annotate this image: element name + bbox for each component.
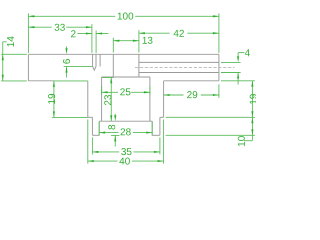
- dim 23 top arrow: [110, 77, 112, 83]
- dim 35 left extension: [91, 137, 93, 154]
- neck right wall: [149, 77, 151, 121]
- extension line hole left: [91, 24, 93, 53]
- dim 8 text: [108, 125, 115, 130]
- dim 4 upper leader vertical: [237, 53, 239, 58]
- dim 8 lower leader: [114, 135, 116, 146]
- dim 2 right arrow: [96, 32, 102, 34]
- dim 19 left bottom extension: [52, 116, 88, 118]
- pocket left wall: [98, 121, 100, 135]
- dim 6 upper leader: [66, 47, 68, 52]
- bottom edge left segment: [92, 134, 99, 136]
- dim 13 text: [143, 37, 153, 44]
- dim 28 line: [99, 132, 152, 134]
- dim 19 right top arrow: [251, 81, 253, 87]
- dim 42 left arrow: [139, 32, 145, 34]
- dim 6 text: [63, 59, 70, 64]
- dim 40 right arrow: [158, 160, 164, 162]
- part left edge: [27, 54, 29, 81]
- extension line slot left: [112, 38, 114, 53]
- dim 29 left arrow: [164, 94, 170, 96]
- dim 28 right arrow: [146, 132, 152, 134]
- dim 6 lower arrow: [65, 67, 67, 73]
- dim 10 line: [251, 117, 253, 140]
- dim 19 left bottom arrow: [53, 111, 55, 117]
- dim 35 text: [121, 148, 131, 155]
- dim 25 left arrow: [102, 91, 108, 93]
- dim 4 lower arrow: [237, 73, 239, 79]
- small hole left wall: [92, 54, 94, 66]
- dim 40 left arrow: [88, 160, 94, 162]
- dim 40 text: [119, 158, 129, 165]
- dim 40 line: [88, 160, 164, 162]
- dim 33 left arrow: [28, 26, 34, 28]
- ledge extension line right: [166, 116, 255, 118]
- left extension line for 100/33: [27, 13, 29, 53]
- dim 6 depth extension: [64, 66, 93, 68]
- dim 100 left arrow: [28, 15, 34, 17]
- dim 42 right arrow: [213, 32, 219, 34]
- dim 4 text: [245, 49, 250, 56]
- small hole right wall: [95, 54, 97, 66]
- dim 25 right arrow: [144, 91, 150, 93]
- dim 13 line: [113, 40, 139, 42]
- dim 2 right leader: [96, 33, 108, 35]
- dim 2 text: [71, 30, 76, 37]
- dim 28 left arrow: [99, 132, 105, 134]
- dim 14 top arrow: [2, 54, 4, 60]
- dim 19 left line: [53, 81, 55, 118]
- dim 33 right arrow: [86, 26, 92, 28]
- dim 23 text: [104, 95, 111, 105]
- extension line slot right: [138, 30, 140, 52]
- small hole conical tip: [93, 67, 96, 71]
- part right edge: [218, 54, 220, 81]
- dim 8 upper arrow: [114, 115, 116, 121]
- dim 10 text: [238, 136, 245, 146]
- dim 100 line: [28, 15, 219, 17]
- dim 28 left extension: [98, 122, 100, 136]
- dim 19 left text: [48, 94, 55, 104]
- dim 8 lower arrow: [114, 135, 116, 141]
- dim 13 right arrow: [133, 40, 139, 42]
- dim 25 right extension: [149, 86, 151, 95]
- dim 2 left arrow: [86, 32, 92, 34]
- dim 35 line: [92, 151, 159, 153]
- dim 6 lower leader: [66, 67, 68, 78]
- dim 4 lower leader vertical: [237, 73, 239, 85]
- dim 19 right line: [251, 81, 253, 118]
- dim 14 text: [7, 36, 14, 46]
- neck shelf: [102, 76, 150, 78]
- dim 4 upper arrow: [237, 56, 239, 62]
- left lower wall: [91, 117, 93, 135]
- dim 13 left arrow: [113, 40, 119, 42]
- dim 19 right top extension: [221, 80, 255, 82]
- dim 2 left leader: [78, 33, 92, 35]
- part top edge: [28, 53, 219, 55]
- dim 40 right extension: [163, 120, 165, 164]
- dim 35 right extension: [159, 137, 161, 154]
- right extension line for 100/42: [218, 13, 220, 53]
- dim 29 right extension: [218, 84, 220, 98]
- dim 23 bottom arrow: [110, 115, 112, 121]
- dim 14/19 bottom extension: [1, 80, 88, 82]
- dim 29 line: [164, 94, 219, 96]
- extension line hole right: [95, 31, 97, 53]
- pocket right wall: [151, 121, 153, 135]
- right lower wall: [159, 117, 161, 135]
- dim 19 right bottom arrow: [251, 111, 253, 117]
- dim 25 left extension: [101, 86, 103, 95]
- dim 4 lower extension: [221, 72, 241, 74]
- side hole centerline: [135, 66, 235, 68]
- side hole upper wall: [139, 61, 219, 63]
- dim 10 bottom arrow: [251, 129, 253, 135]
- dim 14 top extension: [1, 53, 27, 55]
- dim 35 left arrow: [92, 151, 98, 153]
- left flange bottom: [28, 80, 54, 82]
- dim 42 text: [174, 30, 184, 37]
- dim 28 right extension: [151, 122, 153, 136]
- dim 8 upper leader: [114, 114, 116, 117]
- dim 42 line: [139, 32, 219, 34]
- dim 25 text: [120, 88, 130, 95]
- dim 35 right arrow: [154, 151, 160, 153]
- left outer wall: [87, 81, 89, 117]
- dim 10 landing: [244, 140, 252, 142]
- dim 33 line: [28, 26, 92, 28]
- dim 29 text: [187, 91, 197, 98]
- short vertical at hole right: [99, 54, 101, 66]
- side hole lower wall: [139, 72, 219, 74]
- dim 33 text: [55, 24, 65, 31]
- dim 19 right text: [250, 94, 257, 104]
- dim 14 bottom arrow: [2, 75, 4, 81]
- dim 23 top extension: [102, 77, 113, 79]
- dim 100 right arrow: [213, 15, 219, 17]
- dim 8 bottom extension: [111, 134, 120, 136]
- right ledge: [160, 116, 164, 118]
- neck left wall: [101, 77, 103, 121]
- left ledge: [88, 116, 93, 118]
- bottom edge right segment: [152, 134, 160, 136]
- dim 28 text: [121, 128, 131, 135]
- dim 23 line: [110, 77, 112, 121]
- slot right wall: [138, 54, 140, 77]
- dim 100 text: [118, 13, 134, 20]
- dim 4 upper extension: [221, 61, 241, 63]
- dim 14 line: [3, 42, 7, 81]
- right outer wall: [163, 81, 165, 117]
- bottom extension line right: [166, 134, 255, 136]
- right flange bottom: [164, 80, 219, 82]
- dim 6 upper arrow: [65, 48, 67, 54]
- slot left wall: [112, 54, 114, 77]
- dim 29 right arrow: [213, 94, 219, 96]
- pocket ceiling: [99, 120, 152, 122]
- dim 40 left extension: [87, 120, 89, 164]
- dim 19 left top arrow: [53, 81, 55, 87]
- dim 4 leader horizontal: [238, 52, 244, 54]
- dim 25 line: [102, 91, 150, 93]
- dim 10 top arrow: [251, 117, 253, 123]
